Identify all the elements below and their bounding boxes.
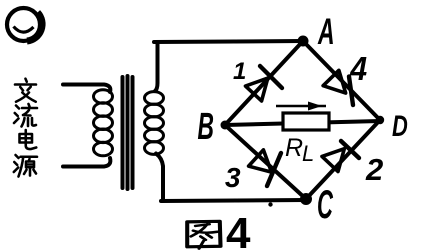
node C xyxy=(300,193,312,205)
resistor RL xyxy=(283,113,329,130)
node A xyxy=(298,36,309,47)
label AC source text 交流电源 xyxy=(14,79,37,177)
svg-text:2: 2 xyxy=(365,152,383,187)
wire B to D load branch xyxy=(225,121,380,125)
diode 2 xyxy=(322,141,359,172)
wire B to C xyxy=(225,125,306,199)
diode 1 xyxy=(245,66,282,101)
svg-text:4: 4 xyxy=(226,209,251,252)
流 xyxy=(14,104,37,127)
svg-text:C: C xyxy=(317,182,333,227)
node D xyxy=(376,116,384,124)
svg-text:B: B xyxy=(198,105,214,147)
svg-text:L: L xyxy=(302,141,314,166)
wire A to B xyxy=(225,41,303,125)
wire C to D xyxy=(306,120,380,199)
wire secondary top to node A xyxy=(154,41,303,42)
电 xyxy=(20,130,37,149)
caption figure 4 图4 xyxy=(187,209,251,252)
svg-text:4: 4 xyxy=(349,50,367,87)
交 xyxy=(15,79,36,102)
wire A to D xyxy=(303,41,380,120)
transformer core xyxy=(123,76,133,189)
svg-text:A: A xyxy=(317,10,334,52)
源 xyxy=(14,155,37,177)
svg-text:3: 3 xyxy=(225,162,241,193)
transformer T primary winding xyxy=(63,85,113,167)
diode 3 xyxy=(249,150,281,186)
node B xyxy=(221,121,230,130)
transformer T secondary winding xyxy=(145,44,164,200)
ink speck xyxy=(268,202,272,206)
svg-text:1: 1 xyxy=(233,58,246,85)
svg-text:R: R xyxy=(285,134,303,162)
diode 4 xyxy=(323,70,353,105)
svg-text:D: D xyxy=(392,109,408,143)
label RL xyxy=(285,134,314,166)
wire secondary bottom to node C xyxy=(161,200,306,201)
current arrow xyxy=(276,102,326,111)
